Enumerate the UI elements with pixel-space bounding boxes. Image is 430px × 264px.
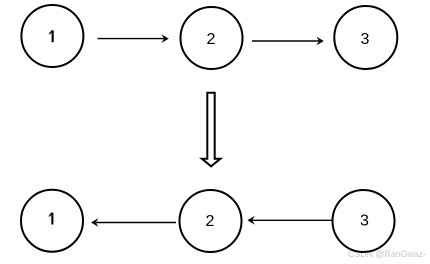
svg-text:3: 3 — [361, 31, 370, 48]
svg-text:2: 2 — [206, 213, 215, 230]
svg-text:2: 2 — [207, 31, 216, 48]
svg-text:3: 3 — [360, 213, 369, 230]
